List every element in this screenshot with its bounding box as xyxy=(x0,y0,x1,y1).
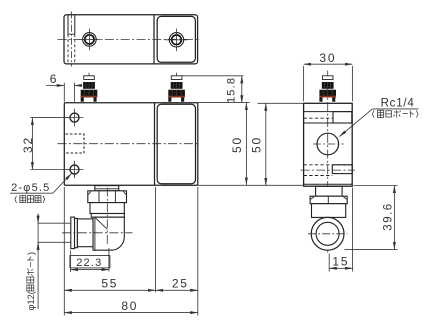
svg-text:50: 50 xyxy=(249,136,263,153)
front view lower hole cross xyxy=(66,161,84,179)
svg-text:25: 25 xyxy=(172,277,189,291)
elbow horizontal centerline xyxy=(62,232,133,234)
side view bottom hidden line 2 xyxy=(304,175,333,177)
side view bottom band line xyxy=(304,183,353,185)
side view bottom centerline xyxy=(301,169,356,171)
top view strip centerline xyxy=(70,12,72,67)
svg-text:φ12(: φ12( xyxy=(26,291,36,310)
dim phi12 vertical line xyxy=(37,214,39,310)
front view upper mounting hole xyxy=(70,113,79,122)
top view right hole cross xyxy=(165,29,188,52)
fitting A left foot xyxy=(81,97,84,101)
dim 50 front line xyxy=(245,103,247,185)
elbow horizontal cylinder xyxy=(77,219,93,247)
fitting B cap xyxy=(171,76,182,80)
elbow hex facet line right xyxy=(114,191,116,202)
top view strip tick xyxy=(68,33,75,35)
side elbow outer circle xyxy=(311,217,344,250)
svg-text:80: 80 xyxy=(121,299,138,313)
fitting A knurled band 1 xyxy=(83,82,95,89)
elbow collet xyxy=(71,217,75,249)
top view right attachment rounded rect xyxy=(157,16,195,62)
fitting B centerline stub xyxy=(176,73,178,76)
side view port circle horizontal centerline xyxy=(313,143,344,145)
dim phi12 lower outside arrow xyxy=(37,242,39,251)
front view block outline xyxy=(64,103,198,185)
dim 22.3 line xyxy=(71,269,109,271)
fitting A knurled band 2 xyxy=(81,90,98,98)
dim 50 side top extension xyxy=(258,102,304,104)
side view bottom hidden line xyxy=(304,164,353,166)
side view top band hidden line xyxy=(304,117,333,119)
dim 15 extension lines xyxy=(329,188,352,272)
svg-text:50: 50 xyxy=(230,136,244,153)
dim 25 line xyxy=(156,289,198,291)
label (outlet port) kanji group xyxy=(372,110,418,117)
side view top band line 1 xyxy=(304,111,353,113)
elbow hex chamfer top-left xyxy=(88,191,91,194)
elbow upper body xyxy=(90,203,124,214)
fitting B band 2 red base xyxy=(168,96,185,98)
dim 22.3 box xyxy=(70,256,110,268)
svg-text:15.8: 15.8 xyxy=(225,77,237,103)
dim 55 line xyxy=(64,289,155,291)
svg-text:6: 6 xyxy=(50,72,58,86)
fitting A centerline stub xyxy=(88,73,90,76)
svg-text:): ) xyxy=(26,252,36,255)
Rc1/4 leader xyxy=(340,109,373,137)
bottom dims right extension xyxy=(197,187,199,316)
dim 15 line xyxy=(329,267,352,269)
bottom dims left extension xyxy=(63,187,65,316)
elbow hex chamfer top-right xyxy=(123,191,126,194)
dim 30 extension lines xyxy=(304,66,353,101)
svg-text:22.3: 22.3 xyxy=(76,257,102,269)
fitting B band 1 knurl highlights xyxy=(174,82,180,89)
side elbow hex nut xyxy=(310,196,347,204)
fitting B knurled band 2 xyxy=(168,90,185,98)
fitting C band 2 knurl highlights xyxy=(323,90,332,96)
label phi12 exhaust port rotated group xyxy=(26,252,36,311)
elbow neck inner line xyxy=(95,188,119,190)
fitting C knurled band 2 xyxy=(319,90,336,98)
fitting A cap xyxy=(84,76,95,80)
fitting B knurled band 1 xyxy=(171,82,183,89)
fitting A band 1 knurl highlights xyxy=(86,82,92,89)
fitting C cap xyxy=(322,76,333,80)
elbow neck xyxy=(95,186,119,191)
elbow inner edge double line xyxy=(94,217,96,250)
dim 15.8 line xyxy=(241,76,243,103)
shared bottom extension line xyxy=(198,184,304,186)
dim 6 line right arrow xyxy=(74,85,78,87)
svg-text:39.6: 39.6 xyxy=(383,202,395,230)
dim 22.3 extension lines xyxy=(71,248,109,272)
top view left hole cross xyxy=(79,29,101,51)
side elbow inner circle xyxy=(316,222,339,245)
top view split line xyxy=(153,15,155,64)
dim phi12 extension lines xyxy=(38,223,71,242)
dim 30 line xyxy=(304,63,353,65)
top view right hole inner circle xyxy=(172,35,182,45)
elbow ring xyxy=(75,218,78,247)
top view left strip line 1 dashed part xyxy=(67,34,69,64)
svg-text:2-φ5.5: 2-φ5.5 xyxy=(11,182,50,194)
dim 2-phi5.5 leader xyxy=(53,174,72,194)
fitting C left foot xyxy=(319,97,322,101)
top view horizontal centerline xyxy=(58,38,201,40)
elbow hex facet line left xyxy=(98,191,100,202)
front view hidden slot dashed rect xyxy=(66,134,85,153)
side view Rc1/4 port circle xyxy=(317,133,339,155)
label (mounting hole) kanji group xyxy=(15,196,45,203)
svg-text:Rc1/4: Rc1/4 xyxy=(381,98,415,110)
fitting C band 2 red base xyxy=(319,96,336,98)
dim 39.6 extension lines xyxy=(345,186,398,250)
top view right hole outer circle xyxy=(169,33,183,47)
svg-text:32: 32 xyxy=(21,136,35,153)
elbow block body with rounded corner xyxy=(93,217,124,250)
dim phi12 upper outside arrow xyxy=(37,215,39,224)
dim 39.6 line xyxy=(393,186,395,250)
side view main vertical centerline xyxy=(327,71,329,253)
side elbow neck xyxy=(316,186,343,196)
fitting A right foot xyxy=(94,97,97,101)
elbow vertical centerline xyxy=(106,188,108,247)
top view left hole outer circle xyxy=(83,33,97,47)
fitting C right foot xyxy=(332,97,335,101)
fitting B left foot xyxy=(168,97,171,101)
fitting C band 1 knurl highlights xyxy=(325,82,331,89)
fitting B right foot xyxy=(181,97,184,101)
top view left strip line 2 solid part xyxy=(74,15,76,35)
dim 6 line left arrow xyxy=(46,85,64,87)
dim 2-phi5.5 underline xyxy=(10,192,53,194)
fitting A band 2 knurl highlights xyxy=(85,90,94,96)
elbow collar xyxy=(91,214,124,218)
side view bottom right notch xyxy=(332,165,352,174)
front view upper hole cross xyxy=(66,109,84,127)
top view left strip line 1 solid part xyxy=(67,15,69,35)
svg-text:15: 15 xyxy=(332,255,349,269)
dim 50 front top extension xyxy=(198,102,250,104)
top view left strip line 2 dashed part xyxy=(74,34,76,64)
front view lower mounting hole xyxy=(70,165,79,174)
dim 15.8 top extension line xyxy=(182,75,243,77)
side elbow hex chamfer right xyxy=(343,197,346,200)
side elbow hex mid line xyxy=(327,196,329,203)
front view right attachment rounded rect xyxy=(157,104,195,183)
side elbow hex chamfer left xyxy=(311,197,314,200)
dim 50 side line xyxy=(265,103,267,185)
bottom dims mid extension xyxy=(155,187,157,292)
fitting B band 2 knurl highlights xyxy=(172,90,181,96)
fitting A band 2 red base xyxy=(81,96,98,98)
dim 80 line xyxy=(64,312,198,314)
dim 6 extension ticks xyxy=(64,83,74,102)
svg-text:55: 55 xyxy=(101,277,118,291)
Rc1/4 underline xyxy=(372,108,418,110)
front view horizontal centerline xyxy=(58,143,199,145)
elbow corner diagonal xyxy=(95,218,107,230)
side view block outline xyxy=(304,103,353,186)
side view top band right notch xyxy=(333,112,352,123)
side view top band line 2 xyxy=(304,122,353,124)
side elbow body xyxy=(312,204,346,218)
dim 32 line xyxy=(31,118,33,170)
dim 32 extension lines xyxy=(31,118,70,170)
side elbow circle horizontal centerline xyxy=(308,233,347,235)
front view split line xyxy=(154,103,156,185)
top view outer outline xyxy=(64,15,198,64)
fitting C knurled band 1 xyxy=(322,82,334,89)
top view left hole inner circle xyxy=(85,35,94,44)
svg-text:30: 30 xyxy=(319,51,336,65)
elbow hex nut xyxy=(88,191,127,203)
